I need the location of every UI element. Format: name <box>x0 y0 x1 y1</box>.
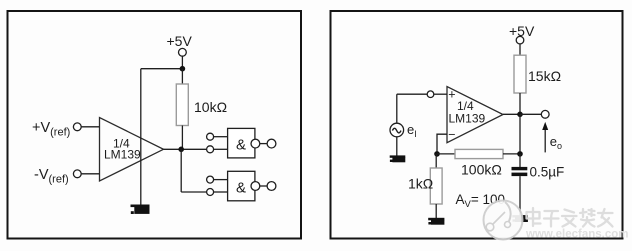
svg-text:LM139: LM139 <box>449 112 486 126</box>
svg-text:&: & <box>236 137 246 154</box>
gate U2 AND (&) upper <box>228 128 255 158</box>
source eI (sine source) <box>390 122 417 139</box>
ground (under source) <box>390 155 406 162</box>
terminal eo output <box>541 110 549 118</box>
wire 1k to ground <box>435 204 437 218</box>
wire gate1 output <box>260 143 267 145</box>
svg-text:&: & <box>236 179 246 196</box>
svg-text:eI: eI <box>407 122 417 139</box>
watermark chinese characters <box>527 208 613 227</box>
svg-text:+V(ref): +V(ref) <box>32 120 70 139</box>
terminal gate2 input A <box>207 176 214 183</box>
wire op-amp output to gate 1 <box>164 148 207 150</box>
terminal gate1 output <box>267 139 276 148</box>
wire source up <box>396 94 398 123</box>
svg-text:-V(ref): -V(ref) <box>34 167 69 186</box>
wire cap to ground <box>519 176 521 215</box>
wire resistor bottom to output node <box>181 126 183 150</box>
wire node to 100k <box>437 153 455 155</box>
input +V(ref) terminal <box>32 120 81 139</box>
wire output node down to feedback node <box>519 114 521 154</box>
node feedback/cap junction <box>517 151 523 157</box>
bubble gate1 output <box>251 139 260 148</box>
bubble gate2 output <box>251 182 260 191</box>
wire +input <box>81 126 99 128</box>
svg-text:100kΩ: 100kΩ <box>461 162 502 178</box>
wire resistor to output node <box>519 93 521 114</box>
input -V(ref) terminal <box>34 167 81 186</box>
resistor R3 100k feedback <box>455 149 503 177</box>
wire terminal to op-amp <box>434 93 447 95</box>
gate U3 AND (&) lower <box>228 171 255 201</box>
svg-text:+5V: +5V <box>167 33 193 49</box>
terminal +input <box>427 91 434 98</box>
terminal gate1 input A <box>207 133 214 140</box>
wire output down to gate 2 row <box>180 149 182 192</box>
svg-text:10kΩ: 10kΩ <box>194 99 227 115</box>
wire V+ / V- power line through op-amp <box>140 69 142 205</box>
wire junction to cap <box>519 154 521 167</box>
svg-text:15kΩ: 15kΩ <box>528 68 561 84</box>
node A (feedback node) <box>434 151 440 157</box>
op-amp U1 1/4 LM139 (left) <box>100 118 164 182</box>
wire node A down to 1k <box>435 154 437 168</box>
panel frame right <box>331 11 623 239</box>
node output junction <box>517 112 523 118</box>
wire supply rail horizontal <box>141 68 183 70</box>
svg-text:www.elecfans.com: www.elecfans.com <box>525 229 628 241</box>
terminal gate2 output <box>267 182 276 191</box>
+5V supply terminal (right panel) <box>509 23 535 44</box>
wire +input row <box>397 93 427 95</box>
resistor R2 15k pull-up <box>514 55 561 93</box>
wire supply terminal to rail junction <box>181 56 183 68</box>
wire -input <box>81 173 99 175</box>
terminal gate2 input B <box>207 189 214 196</box>
wire gate2 output <box>260 185 267 187</box>
wire -input stub <box>437 134 447 154</box>
resistor R4 1k <box>408 168 442 204</box>
terminal gate1 input B <box>207 146 214 153</box>
ground (left panel, op-amp V-) <box>131 205 150 215</box>
wire source to ground <box>396 137 398 156</box>
wire gate1 input A stub <box>214 136 228 138</box>
svg-text:−: − <box>448 127 455 141</box>
wire gate2 input A stub <box>214 179 228 181</box>
resistor R1 10k pull-up <box>176 84 227 126</box>
wire 100k to output column <box>503 153 520 155</box>
wire op-amp output to node <box>503 113 520 115</box>
wire rail to resistor R top <box>181 69 183 84</box>
watermark logo disc <box>484 201 523 240</box>
svg-text:LM139: LM139 <box>104 148 141 162</box>
wire supply to resistor <box>519 44 521 55</box>
panel frame left <box>8 11 302 239</box>
ground (under 1k) <box>428 218 444 225</box>
svg-text:1kΩ: 1kΩ <box>408 176 433 192</box>
op-amp U4 1/4 LM139 (right) <box>447 87 503 143</box>
wire to gate 2 input <box>181 191 206 193</box>
ground (under cap) <box>512 215 528 222</box>
arrow eo <box>542 122 562 152</box>
svg-text:eo: eo <box>550 134 562 151</box>
wire gate1 input B stub <box>214 148 228 150</box>
capacitor C1 0.5uF <box>512 164 565 179</box>
+5V supply terminal (left panel) <box>167 33 193 56</box>
wire output node to terminal <box>520 113 541 115</box>
svg-text:+: + <box>448 88 455 102</box>
svg-text:0.5µF: 0.5µF <box>530 164 565 179</box>
node output junction <box>178 147 184 153</box>
node supply junction <box>180 66 186 72</box>
wire gate2 input B stub <box>214 191 228 193</box>
